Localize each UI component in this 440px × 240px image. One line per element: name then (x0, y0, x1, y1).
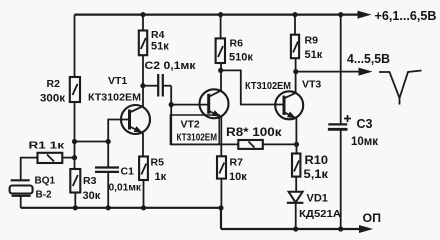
wire output line (296, 71, 360, 73)
junction ground-C1 (106, 205, 111, 210)
svg-text:10мк: 10мк (351, 136, 378, 148)
svg-text:R10: R10 (305, 155, 329, 167)
wire R1 left lead down to BQ1 (21, 158, 38, 181)
power terminal +6,1...6,5B arrowhead (358, 11, 372, 19)
resistor R2 (40, 77, 80, 105)
wire ground rail left section (21, 207, 221, 209)
junction VT3 collector / output tap (293, 69, 298, 74)
junction ground-R7 corner (218, 205, 223, 210)
wire ground jog down (220, 208, 222, 229)
wire R10 to VD1 (295, 177, 297, 192)
label box КТ3102ЕМ of VT2 (170, 115, 219, 144)
capacitor C1 (95, 142, 142, 208)
svg-text:R9: R9 (305, 35, 319, 47)
node label 4...5,5В (347, 52, 390, 66)
wire R4 to VT1 collector (142, 55, 144, 106)
wire VT3 emitter down (295, 118, 297, 144)
wire up-jog to VT1 base (108, 120, 129, 142)
output terminal arrowhead (359, 68, 373, 76)
junction ground-C3 (338, 226, 343, 231)
svg-text:КТ3102ЕМ: КТ3102ЕМ (177, 131, 218, 143)
resistor R7 (217, 156, 247, 183)
svg-text:C2 0,1мк: C2 0,1мк (145, 60, 197, 72)
wire VT3 base link (221, 70, 284, 104)
resistor R4 (139, 15, 169, 56)
svg-text:4...5,5В: 4...5,5В (347, 52, 390, 66)
junction ground-R3 (73, 205, 78, 210)
svg-text:КТ3102ЕМ: КТ3102ЕМ (245, 81, 291, 92)
svg-text:+6,1...6,5В: +6,1...6,5В (375, 8, 437, 23)
svg-text:1к: 1к (155, 171, 167, 183)
svg-text:КД521А: КД521А (299, 208, 341, 220)
wire C2 to VT2 base (171, 86, 209, 105)
wire VT1 emitter to R5 (142, 133, 144, 157)
svg-text:VT3: VT3 (302, 79, 321, 91)
svg-text:R3: R3 (83, 175, 97, 187)
svg-text:R5: R5 (151, 157, 165, 169)
wire top supply rail (75, 14, 360, 16)
svg-text:В-2: В-2 (36, 190, 53, 201)
resistor R9 (291, 15, 323, 61)
piezo sensor BQ1 (10, 176, 56, 201)
wire ground rail right section (221, 228, 361, 230)
junction collector-C2 tap (140, 83, 145, 88)
node label +6,1...6,5В (375, 8, 437, 23)
junction VT3 emitter / R8 / R10 (294, 142, 299, 147)
wire R3 to ground rail (74, 193, 76, 208)
svg-text:BQ1: BQ1 (35, 176, 56, 187)
diode VD1 (287, 192, 342, 220)
svg-text:R2: R2 (47, 78, 61, 90)
wire R5 to ground (143, 180, 145, 208)
junction VT2 collector / VT3 base tap (218, 68, 223, 73)
wire VD1 to ground (295, 203, 297, 229)
svg-text:0,01мк: 0,01мк (109, 183, 143, 194)
wire supply filter column (340, 15, 342, 125)
resistor R6 (216, 15, 254, 64)
ground terminal ОП arrowhead (359, 225, 373, 233)
junction rail-R9 (292, 12, 297, 17)
svg-text:VT1: VT1 (108, 75, 127, 87)
junction R2/base-wire (72, 139, 77, 144)
junction VT2 base node (169, 102, 174, 107)
wire R7 to ground corner (220, 179, 222, 208)
wire VT2 collector to R6 (220, 63, 222, 91)
svg-text:R7: R7 (230, 157, 244, 169)
capacitor C3 (328, 115, 378, 148)
svg-text:VD1: VD1 (307, 193, 328, 205)
svg-text:R8* 100к: R8* 100к (226, 127, 282, 139)
wire C3 to ground (340, 129, 342, 229)
resistor R3 (70, 169, 100, 202)
svg-text:300к: 300к (40, 93, 66, 105)
junction ground-R5 (141, 205, 146, 210)
svg-text:R6: R6 (230, 38, 244, 50)
svg-text:10к: 10к (229, 171, 247, 183)
resistor R1 (29, 140, 65, 164)
svg-text:5,1к: 5,1к (304, 169, 329, 181)
transistor VT2 (181, 89, 229, 130)
wire R9 to VT3 collector (295, 58, 297, 92)
junction rail-R4 (140, 12, 145, 17)
wire feedback right of R8 to VT3 emitter (263, 143, 297, 145)
svg-text:C1: C1 (121, 166, 135, 178)
wire feedback from VT2 base down (171, 105, 238, 145)
svg-text:C3: C3 (357, 117, 373, 131)
svg-text:VT2: VT2 (181, 119, 200, 131)
junction base/C1 node (106, 139, 111, 144)
svg-text:51к: 51к (151, 41, 169, 53)
junction R1 tap (72, 155, 77, 160)
svg-text:30к: 30к (83, 190, 101, 202)
resistor R8 (226, 127, 282, 149)
wire R1 right lead (62, 157, 74, 159)
node label ОП (363, 213, 382, 225)
wire left column from rail to R2 (74, 15, 76, 77)
svg-text:51к: 51к (305, 49, 323, 61)
transistor VT1 (88, 75, 150, 136)
capacitor C2 (143, 60, 196, 97)
junction rail-R6 (218, 12, 223, 17)
junction ground-VD1 (293, 226, 298, 231)
svg-text:КТ3102ЕМ: КТ3102ЕМ (88, 93, 141, 104)
resistor R5 (139, 157, 167, 184)
resistor R10 (292, 144, 328, 181)
waveform pulse symbol (379, 71, 422, 105)
svg-text:R1 1к: R1 1к (29, 140, 65, 152)
svg-text:ОП: ОП (363, 213, 382, 225)
wire BQ1 to ground rail (20, 196, 22, 208)
junction rail-C3 (338, 12, 343, 17)
wire base bias line (75, 141, 109, 143)
svg-text:510к: 510к (229, 52, 253, 64)
wire R2 to base node and R1 node (74, 102, 76, 169)
svg-text:R4: R4 (151, 29, 165, 41)
transistor VT3 (245, 79, 321, 122)
wire VT2 emitter to R7 (220, 117, 222, 156)
